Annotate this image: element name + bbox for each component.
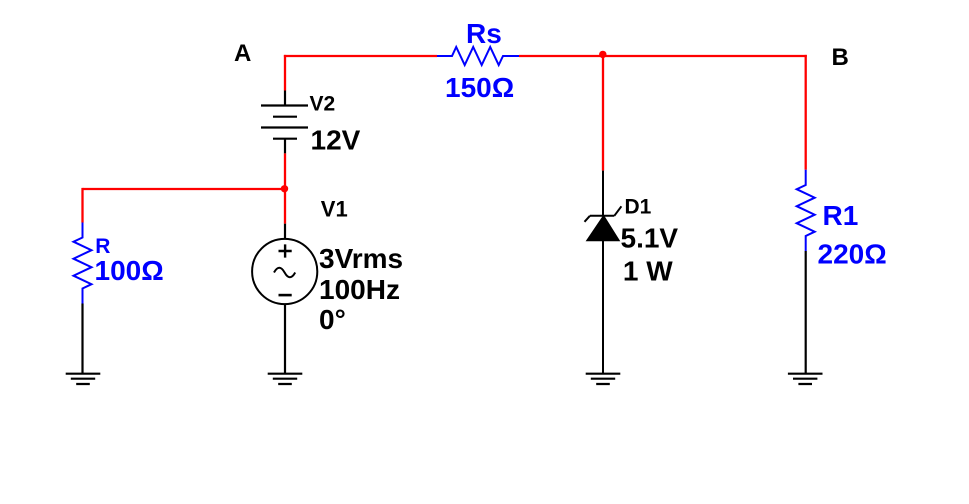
svg-text:100Ω: 100Ω [95,255,164,286]
svg-text:150Ω: 150Ω [445,72,514,103]
svg-text:V1: V1 [321,196,348,221]
wire top horizontal left (A to Rs) [284,55,437,57]
svg-text:0°: 0° [319,304,346,335]
svg-text:V2: V2 [310,93,336,116]
resistor R1 [797,170,815,251]
svg-text:100Hz: 100Hz [319,274,400,305]
wire battery bottom to V1 top [284,153,286,223]
wire vertical left branch down to R [81,188,83,223]
ground under V1 [268,374,303,384]
wire vertical at A corner down to battery [284,55,286,91]
zener diode D1 [585,171,622,374]
svg-text:3Vrms: 3Vrms [319,243,403,274]
resistor Rs [437,47,519,65]
wire top horizontal right (Rs to B corner) [519,55,807,57]
wire vertical junction down to D1 [602,55,604,171]
svg-text:A: A [234,40,251,67]
ground under D1 [586,374,621,384]
ground under R [66,374,101,384]
resistor R [74,223,92,304]
svg-text:Rs: Rs [466,18,502,49]
svg-text:D1: D1 [625,195,652,218]
wire black R bottom to ground [81,304,83,374]
svg-text:R1: R1 [823,200,859,231]
svg-text:B: B [832,44,849,71]
svg-text:220Ω: 220Ω [818,238,887,269]
battery V2 [261,91,308,154]
wire horizontal junction to left branch [83,188,286,190]
svg-text:1 W: 1 W [623,256,673,287]
svg-text:5.1V: 5.1V [621,223,679,254]
junction dot at node A/V1 [281,185,288,192]
junction dot on top wire at D1 [599,51,606,58]
wire black R1 bottom to ground [805,251,807,374]
ac source V1 circle [252,224,317,374]
wire vertical B corner down to R1 [805,55,807,170]
svg-text:12V: 12V [311,125,361,156]
ground under R1 [788,374,823,384]
